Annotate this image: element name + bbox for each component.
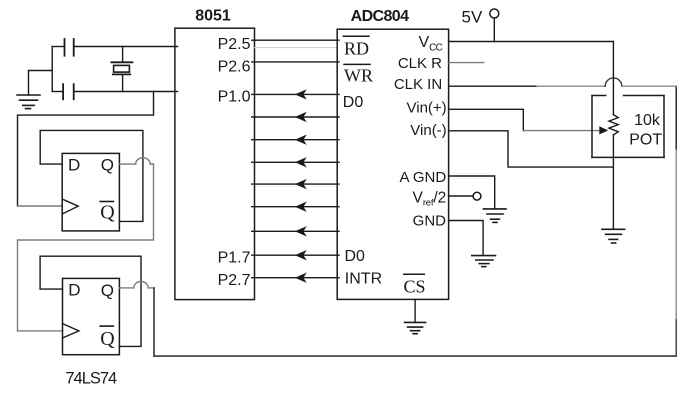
svg-text:D0: D0 [345,248,366,265]
capacitor C2 (bottom, XTAL2) [63,84,74,99]
svg-text:POT: POT [629,132,662,149]
overbar WR [344,63,370,65]
svg-text:Vin(-): Vin(-) [410,122,446,139]
wire data bit 7 with arrow [252,254,339,256]
wire data bit 6 with arrow [252,230,339,232]
5V terminal circle [490,9,499,18]
svg-text:D: D [68,280,80,299]
ground (crystal circuit) [17,95,40,109]
arrowhead POT wiper [599,126,608,134]
wire POT bottom to ground [612,135,614,229]
svg-text:74LS74: 74LS74 [65,369,117,387]
wire Vin(+) jog [449,109,524,131]
svg-text:CLK IN: CLK IN [394,76,442,93]
svg-text:Vin(+): Vin(+) [407,99,447,116]
svg-text:Q: Q [100,202,115,224]
overbar U2 Qbar [99,325,114,327]
ground (POT) [602,229,625,243]
ADC804 box [337,29,448,299]
capacitor C1 (top, XTAL1) [65,39,74,56]
potentiometer box [592,96,664,158]
svg-text:P2.7: P2.7 [218,272,251,289]
wire CLK IN with hop over POT wire [449,78,677,86]
terminal circle Vref/2 [473,192,481,200]
wire U1 Q output with hop [18,158,154,331]
wire data bit 2 with arrow [252,139,339,141]
5V terminal stem [493,18,495,41]
svg-text:P1.7: P1.7 [218,249,251,266]
svg-text:GND: GND [413,212,447,229]
wire Vref/2 stub [449,195,474,197]
wire ghost faint line [255,47,338,49]
wire ground branch [29,71,53,96]
resistor zigzag (10k POT) [609,115,618,135]
wire data bit 5 with arrow [252,206,339,208]
wire CLK R stub [449,62,484,64]
svg-text:RD: RD [344,39,369,59]
wire U2 Q output with hop [119,282,154,288]
wire D flip-flop U1 clock input [18,205,63,207]
wire P2.5 to RD [252,39,339,41]
svg-text:D0: D0 [343,94,364,111]
svg-text:A GND: A GND [400,169,447,186]
wire A GND down [449,176,495,209]
svg-text:P1.0: P1.0 [218,89,251,106]
wire data bit 1 with arrow [252,116,339,118]
wire data bit 3 with arrow [252,161,339,163]
8051 box [175,28,255,299]
wire C2 left lead [52,91,63,93]
wire P2.6 to WR [252,61,339,63]
ground (CS) [405,322,426,333]
wire XTAL2 down to flip-flop clock [18,92,154,207]
svg-text:8051: 8051 [195,8,231,25]
wire C2 right lead to 8051 XTAL2 [74,91,178,93]
wire GND down [449,221,484,256]
svg-text:Q: Q [101,281,114,300]
arrowheads on data lines [295,89,307,283]
svg-text:CLK R: CLK R [398,55,442,72]
svg-text:P2.6: P2.6 [218,58,251,75]
U1 clock triangle [62,199,78,214]
wire right riser up to CLK IN [675,86,677,150]
svg-text:Q: Q [101,156,114,175]
wire U2 Q down to bottom bus [153,288,155,356]
wire Vin(+) to POT wiper [523,130,599,132]
ground (GND pin) [472,256,496,267]
svg-text:CS: CS [404,276,426,296]
overbar CS [404,273,425,275]
overbar U1 Qbar [99,201,114,203]
wire POT top from Vcc rail [612,42,614,115]
wire INTR to P2.7 with arrow [252,277,339,279]
overbar RD [343,35,369,37]
wire bottom bus to right riser [154,355,676,357]
wire U2 D-input feedback loop [40,256,141,346]
wire Vcc to 5V rail [449,41,614,43]
svg-text:P2.5: P2.5 [218,36,251,53]
wire data bit 4 with arrow [252,183,339,185]
wire C1 left lead [52,46,64,48]
svg-text:WR: WR [344,66,373,86]
U2 clock triangle [63,324,79,338]
D flip-flop U2 (74LS74 bottom) [63,278,120,354]
wire left column joining C1 and C2 [51,47,53,92]
ground (A GND) [483,209,506,223]
wire Vin(-) jog [449,131,613,167]
svg-text:ADC804: ADC804 [351,8,409,25]
D flip-flop U1 (74LS74 top) [62,153,119,231]
svg-text:D: D [68,155,80,174]
wire data bit 0 with arrow [252,93,339,95]
wire U1 D-input feedback loop [40,130,143,221]
svg-text:5V: 5V [462,8,483,27]
svg-text:INTR: INTR [345,271,382,288]
svg-text:Q: Q [100,328,115,350]
svg-text:10k: 10k [634,112,661,129]
crystal Y1 [111,47,132,92]
wire C1 right lead to 8051 XTAL1 [74,46,178,48]
wire CS down [414,299,416,322]
wire U2 clock input [18,330,63,332]
